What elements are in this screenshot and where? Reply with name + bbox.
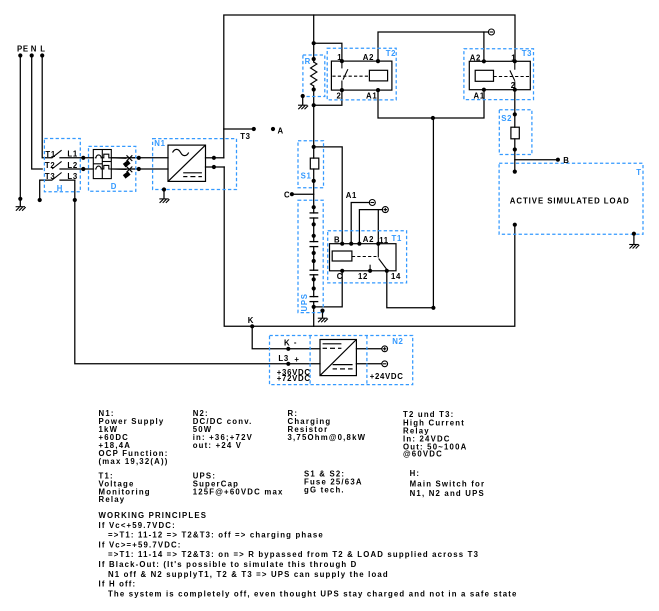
svg-text:N: N [31, 45, 37, 54]
wire PE down [19, 56, 21, 199]
svg-text:(max 19,32(A)): (max 19,32(A)) [99, 457, 169, 466]
svg-text:T1: T1 [45, 150, 56, 159]
svg-text:@60VDC: @60VDC [403, 450, 443, 459]
svg-text:+24VDC: +24VDC [370, 372, 404, 381]
svg-text:L: L [40, 45, 45, 54]
svg-text:-: - [294, 338, 297, 347]
svg-text:+: + [294, 355, 299, 364]
svg-text:A2: A2 [363, 53, 374, 62]
svg-text:S1: S1 [301, 172, 312, 181]
wire L3 to N2 [75, 180, 320, 364]
box N2 dashed [270, 336, 413, 385]
wire T1 A1 to minus terminal [351, 203, 369, 244]
box N1 dashed [153, 139, 237, 190]
svg-text:K: K [248, 316, 254, 325]
wire top rail [224, 15, 515, 158]
svg-text:N2: N2 [392, 337, 403, 346]
svg-text:L2: L2 [67, 161, 78, 170]
svg-text:2: 2 [337, 92, 342, 101]
svg-text:Relay: Relay [99, 495, 126, 504]
wire T3 A2 riser [483, 32, 485, 61]
box R dashed [303, 55, 325, 97]
capacitor UPS C2 [310, 242, 319, 247]
svg-text:1: 1 [511, 53, 516, 62]
svg-text:B: B [563, 156, 569, 165]
svg-text:K: K [284, 338, 290, 347]
svg-text:A2: A2 [470, 53, 481, 62]
box UPS dashed [298, 200, 323, 312]
terminal plus T1 [382, 207, 388, 213]
svg-text:2: 2 [511, 81, 516, 90]
wire A1 net T2 to T3 [378, 90, 484, 118]
wire S1 branch to T1 B [314, 147, 343, 244]
box N2 inner separators [310, 336, 367, 385]
wire A1 rail down [432, 118, 434, 308]
svg-text:WORKING PRINCIPLES: WORKING PRINCIPLES [99, 511, 208, 520]
wire N1 plus output [214, 157, 224, 159]
svg-text:1: 1 [337, 53, 342, 62]
ground PE [16, 199, 26, 211]
wire N1 minus output [214, 166, 224, 168]
terminal minus N2 [382, 361, 388, 367]
wire T3 switch left leg [40, 180, 52, 200]
svg-text:=>T1: 11-12 => T2&T3: off => c: =>T1: 11-12 => T2&T3: off => charging ph… [108, 531, 324, 540]
relay T3 body [469, 61, 530, 89]
terminal minus 24VDC top [488, 29, 494, 35]
svg-text:A1: A1 [366, 92, 377, 101]
wire D to N1 row1 [111, 157, 168, 159]
switch H blade T2 [52, 161, 62, 169]
terminal plus N2 [382, 346, 388, 352]
svg-text:out: +24 V: out: +24 V [193, 441, 242, 450]
wire node C branch [292, 193, 314, 195]
capacitor UPS C1 [310, 213, 319, 218]
wire L down [42, 56, 52, 158]
ground R [298, 96, 308, 109]
svg-text:T1: T1 [392, 234, 403, 243]
wire load bottom to rail [252, 225, 515, 327]
switch H blade T1 [52, 150, 62, 158]
breaker D contact L1 [111, 155, 139, 167]
wire S1 bottom [313, 169, 315, 213]
switch H blade T3 [52, 173, 62, 181]
box T3 dashed [464, 49, 534, 100]
svg-text:H:: H: [410, 469, 421, 478]
capacitor UPS C3 [310, 270, 319, 275]
wire T1 pin14 to A1 rail [387, 271, 434, 308]
wire K riser to N2 [252, 326, 320, 349]
wire UPS chain segments [313, 218, 315, 242]
wire N2 output plus [356, 348, 382, 350]
svg-text:L3: L3 [278, 354, 289, 363]
terminal minus T1 [369, 200, 375, 206]
svg-text:ACTIVE SIMULATED LOAD: ACTIVE SIMULATED LOAD [510, 196, 630, 205]
svg-text:=>T1: 11-14 => T2&T3: on => R: =>T1: 11-14 => T2&T3: on => R bypassed f… [108, 550, 479, 559]
converter N1 AC/DC [168, 145, 206, 181]
wire R to S1 to UPS main vertical [313, 43, 315, 62]
svg-text:A: A [278, 126, 284, 135]
wire below resistor [313, 86, 315, 147]
ground N1 [159, 190, 169, 203]
relay T1 body [330, 244, 397, 271]
svg-text:N1, N2 and UPS: N1, N2 and UPS [410, 489, 485, 498]
svg-text:D: D [111, 182, 117, 191]
svg-text:PE: PE [17, 45, 29, 54]
svg-text:T2: T2 [386, 49, 397, 58]
svg-text:T3: T3 [240, 132, 251, 141]
svg-text:If H off:: If H off: [99, 580, 137, 589]
svg-text:T2: T2 [45, 161, 56, 170]
svg-text:R: R [305, 57, 311, 66]
wire node B branch [515, 159, 558, 161]
box H dashed [44, 139, 80, 192]
ground load T [629, 234, 639, 249]
capacitor UPS C4 [310, 297, 319, 302]
svg-text:B: B [334, 235, 340, 244]
svg-text:125F@+60VDC max: 125F@+60VDC max [193, 488, 284, 497]
box S1 dashed [298, 141, 324, 188]
svg-text:11: 11 [379, 236, 389, 245]
wire node T3-A stub [224, 128, 254, 130]
box D dashed [89, 146, 136, 191]
wire A2 net to minus terminal [378, 32, 488, 61]
svg-text:14: 14 [391, 272, 401, 281]
svg-text:A2: A2 [363, 235, 374, 244]
relay T2 body [331, 61, 392, 90]
box T2 dashed [327, 48, 396, 100]
svg-text:T3: T3 [45, 172, 56, 181]
svg-text:gG tech.: gG tech. [304, 486, 345, 495]
wire left rail lower [224, 167, 252, 326]
fuse S1 [310, 158, 319, 169]
svg-text:+72VDC: +72VDC [277, 374, 311, 383]
svg-text:H: H [57, 184, 63, 193]
svg-text:L1: L1 [67, 150, 78, 159]
box load T dashed [499, 163, 643, 234]
svg-text:If Vc>=+59.7VDC:: If Vc>=+59.7VDC: [99, 540, 182, 549]
svg-text:UPS: UPS [300, 293, 309, 311]
wire N1 out stubs [206, 157, 214, 159]
box T1 dashed [328, 231, 407, 283]
wire T1 pin11 riser [377, 210, 379, 244]
wire T2 pin2 branch [314, 90, 342, 105]
svg-text:If Vc<+59.7VDC:: If Vc<+59.7VDC: [99, 521, 176, 530]
svg-text:Main Switch for: Main Switch for [410, 479, 486, 488]
svg-text:A1: A1 [346, 191, 357, 200]
converter N2 DC/DC [320, 340, 356, 376]
svg-text:If Black-Out: (It's possible t: If Black-Out: (It's possible to simulate… [99, 560, 358, 569]
wire S2 to load [514, 139, 516, 172]
svg-text:N1: N1 [154, 139, 165, 148]
wire L2 row [60, 168, 93, 170]
svg-text:3,75Ohm@0,8kW: 3,75Ohm@0,8kW [288, 433, 367, 442]
wire D to N1 row2 [111, 168, 168, 170]
breaker D body [93, 150, 111, 179]
svg-text:L3: L3 [67, 172, 78, 181]
wire N down [32, 56, 43, 170]
svg-text:C: C [337, 272, 343, 281]
wire T2 pin1 branch [314, 15, 342, 61]
resistor R [311, 62, 317, 86]
svg-text:N1 off & N2 supplyT1, T2 & T3: N1 off & N2 supplyT1, T2 & T3 => UPS can… [108, 570, 389, 579]
box S2 dashed [499, 110, 532, 155]
svg-text:A1: A1 [474, 92, 485, 101]
breaker D contact L2 [111, 167, 139, 179]
fuse S2 [511, 127, 519, 139]
wire UPS bottom to T1 C [314, 271, 343, 307]
svg-text:12: 12 [358, 272, 368, 281]
wire L1 row [60, 157, 93, 159]
svg-text:C: C [284, 191, 290, 200]
svg-text:T: T [636, 168, 641, 177]
wire S1 through fuse [313, 147, 315, 158]
ground UPS [318, 311, 328, 323]
svg-text:S2: S2 [501, 114, 512, 123]
wire N2 output minus [356, 363, 382, 365]
wire L3 row [60, 179, 75, 181]
svg-text:T3: T3 [522, 49, 533, 58]
wire T1 A2 to plus terminal [359, 210, 382, 244]
wire T3 pin2 to S2 [514, 90, 516, 128]
svg-text:The system is completely off,: The system is completely off, even thoug… [108, 589, 518, 598]
